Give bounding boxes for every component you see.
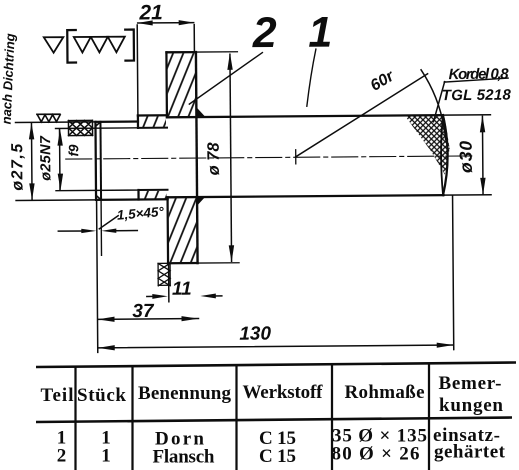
table vertical 3 — [235, 365, 237, 470]
shaft end face outer arc — [442, 115, 448, 195]
table vertical 2 — [131, 366, 133, 470]
knurl triangle strip — [37, 114, 60, 122]
dim 11 right line — [213, 295, 222, 297]
svg-text:f9: f9 — [66, 144, 81, 157]
svg-text:Rohmaße: Rohmaße — [345, 382, 425, 403]
o25 seat top bore line — [138, 127, 167, 129]
o27.5 dimension line — [30, 123, 33, 199]
hub hatch upper strip — [139, 116, 166, 127]
svg-text:Kordel 0,8: Kordel 0,8 — [449, 66, 510, 83]
chamfer dim left line — [58, 230, 84, 232]
svg-text:1: 1 — [101, 446, 111, 467]
svg-text:Stück: Stück — [77, 385, 126, 406]
svg-text:11: 11 — [172, 279, 192, 300]
o27.5 arrow down — [29, 183, 35, 200]
shaft left end face — [94, 122, 97, 200]
table vertical 1 — [74, 367, 76, 470]
svg-text:80 Ø × 26: 80 Ø × 26 — [332, 444, 420, 465]
dim 11 arrow left-pointing — [200, 294, 216, 299]
svg-text:ø27,5: ø27,5 — [9, 142, 26, 191]
dim 11 left line — [147, 295, 155, 297]
part 2 leader — [189, 53, 263, 105]
surface symbol bracket right — [125, 30, 134, 61]
svg-text:TGL 5218: TGL 5218 — [442, 87, 512, 105]
flange hatch upper block — [167, 53, 195, 116]
table top line — [36, 363, 516, 368]
dim 37 line — [98, 318, 198, 321]
o25 seat top ext line — [56, 127, 138, 130]
dim 21 extension right — [193, 25, 195, 51]
disc bottom extension (for o78) — [198, 262, 239, 264]
svg-text:2: 2 — [57, 446, 67, 467]
dim 130 arrow left — [98, 345, 115, 350]
surface symbol bracket left — [67, 30, 76, 63]
svg-text:1,5×45°: 1,5×45° — [116, 204, 165, 223]
chamfer arrow right-pointing — [81, 229, 96, 234]
shaft o27.5 bottom edge — [96, 198, 167, 201]
o78 arrow up — [227, 53, 233, 70]
o25N7 arrow down — [58, 174, 64, 191]
disc top extension (for o78) — [196, 51, 237, 53]
chamfer leader — [99, 216, 118, 229]
o30 arrow up — [480, 115, 486, 132]
dim 37 arrow left — [97, 317, 114, 322]
o30 arrow down — [480, 178, 486, 195]
radius reference arc — [421, 70, 446, 140]
dim 11 arrow right-pointing — [152, 294, 168, 299]
o27.5 bottom extension line — [16, 199, 96, 202]
svg-text:nach Dichtring: nach Dichtring — [0, 33, 18, 125]
dim 21 arrow right — [179, 20, 195, 25]
surface symbol single triangle — [44, 37, 64, 53]
svg-text:Werkstoff: Werkstoff — [243, 382, 324, 403]
svg-text:gehärtet: gehärtet — [434, 442, 506, 463]
disc top edge — [166, 51, 195, 53]
svg-text:C 15: C 15 — [259, 446, 296, 467]
o25N7 dimension line — [59, 129, 61, 190]
knurl wedge right end — [405, 116, 449, 175]
svg-text:Teil: Teil — [41, 385, 74, 406]
svg-text:ø 78: ø 78 — [205, 142, 223, 176]
table vertical 4 — [331, 364, 333, 470]
svg-text:kungen: kungen — [439, 395, 503, 416]
o25N7 arrow up — [57, 129, 63, 146]
centerline — [66, 156, 472, 159]
weld triangle top — [196, 107, 205, 117]
svg-text:1: 1 — [308, 9, 332, 57]
hub hatch lower strip — [140, 191, 167, 199]
extension line left (for 37/130) — [97, 200, 98, 352]
dim 21 extension left — [136, 25, 139, 115]
table vertical 5 — [428, 364, 430, 470]
shaft end face inner arc — [441, 115, 444, 195]
o30 extension top — [443, 114, 490, 116]
corner cross strip at disc bottom — [158, 263, 170, 286]
hub left face upper — [137, 116, 139, 128]
dim 21 arrow left — [137, 20, 153, 25]
chamfer arrow left-pointing — [101, 229, 116, 234]
svg-text:Bemer-: Bemer- — [439, 373, 502, 394]
o78 dimension line — [230, 54, 232, 261]
svg-text:21: 21 — [138, 1, 163, 24]
dim 130 extension right — [453, 196, 454, 349]
radius 60 center tick — [295, 150, 297, 164]
hub top line — [138, 114, 167, 116]
o25 seat bottom ext line — [56, 189, 138, 192]
svg-text:Benennung: Benennung — [138, 383, 232, 404]
chamfer dim right line — [114, 230, 137, 232]
o78 arrow down — [229, 245, 235, 262]
chamfer corner bottom — [96, 195, 101, 200]
o30 shaft top edge — [167, 115, 443, 117]
dim 37 arrow right — [181, 316, 198, 321]
svg-text:ø30: ø30 — [456, 140, 476, 173]
flange hatch lower block — [169, 198, 197, 262]
svg-text:Flansch: Flansch — [153, 447, 215, 468]
o27.5 top extension line — [15, 121, 95, 124]
o30 shaft bottom edge — [168, 195, 444, 197]
surface symbol triangle c — [108, 37, 125, 53]
o30 dimension line — [481, 116, 484, 193]
dim 11 extension left — [168, 265, 170, 302]
seal ring cross block — [68, 120, 92, 135]
o25 seat bottom bore line — [138, 189, 167, 191]
flange disc right face — [196, 52, 198, 263]
radius 60 leader — [295, 74, 428, 157]
dim 21 line — [138, 22, 194, 24]
part 1 leader — [306, 49, 316, 106]
o27.5 arrow up — [29, 123, 35, 140]
table header separator — [36, 418, 512, 423]
flange disc left face upper — [165, 52, 168, 117]
o30 extension bottom — [443, 194, 491, 196]
hub left face lower — [137, 190, 139, 199]
svg-text:2: 2 — [252, 9, 277, 57]
svg-text:37: 37 — [132, 301, 155, 322]
flange disc left face lower — [166, 197, 169, 263]
svg-text:ø25N7: ø25N7 — [38, 135, 54, 181]
chamfer edge line — [99, 122, 102, 200]
chamfer extension line down — [100, 200, 102, 255]
kordel underline — [444, 78, 508, 82]
svg-text:130: 130 — [239, 323, 271, 344]
shaft o27.5 top edge — [95, 120, 137, 123]
disc bottom edge — [168, 262, 197, 264]
weld triangle bottom — [197, 197, 205, 206]
surface symbol triangle b — [91, 37, 108, 53]
chamfer corner top — [95, 122, 100, 127]
surface symbol triangle a — [74, 37, 91, 53]
dim 130 line — [98, 345, 453, 348]
dim 130 arrow right — [437, 342, 454, 347]
svg-text:60r: 60r — [368, 67, 398, 94]
kordel leader — [433, 82, 445, 122]
